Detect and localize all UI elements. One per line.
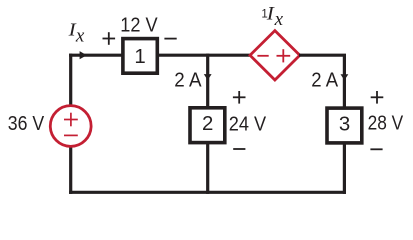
element 3 box bbox=[327, 108, 362, 143]
minus inside source V1 bbox=[64, 134, 78, 136]
label Ix bbox=[68, 20, 85, 47]
svg-text:3: 3 bbox=[339, 113, 350, 135]
label 1Ix (dependent source value) bbox=[261, 3, 283, 30]
element 1 box bbox=[123, 39, 157, 74]
svg-text:28 V: 28 V bbox=[368, 113, 404, 135]
svg-text:12 V: 12 V bbox=[120, 14, 158, 36]
svg-text:1: 1 bbox=[134, 46, 145, 68]
arrowhead: 2 A right branch (down) bbox=[341, 74, 349, 80]
polarity - (24 V) bbox=[233, 148, 245, 150]
svg-text:24 V: 24 V bbox=[229, 114, 267, 136]
wire: top middle (element 1 to dependent source) bbox=[158, 54, 252, 57]
wire: top right (dependent source to right corner) and right rail upper bbox=[299, 55, 344, 108]
plus inside dependent source bbox=[277, 49, 291, 62]
arrowhead: current Ix direction bbox=[80, 51, 87, 59]
voltage source V1 36V circle bbox=[50, 106, 91, 147]
svg-text:2 A: 2 A bbox=[174, 69, 202, 91]
wire: left rail upper bbox=[69, 54, 72, 107]
minus inside dependent source bbox=[257, 55, 268, 57]
wire: top-left horizontal (node a to element 1) bbox=[69, 54, 122, 57]
polarity + (24 V) bbox=[233, 91, 246, 104]
polarity + (element 1 left) bbox=[103, 32, 116, 45]
svg-text:2 A: 2 A bbox=[311, 69, 338, 91]
polarity - (28 V) bbox=[370, 148, 382, 150]
plus inside source V1 bbox=[64, 113, 78, 127]
wire: right rail lower bbox=[343, 142, 346, 194]
wire: bottom rail bbox=[69, 191, 346, 194]
polarity - (element 1 right) bbox=[164, 38, 176, 40]
svg-text:36 V: 36 V bbox=[8, 113, 45, 135]
polarity + (28 V) bbox=[371, 91, 384, 104]
svg-text:x: x bbox=[274, 9, 284, 30]
dependent source U1 diamond bbox=[250, 31, 300, 80]
wire: left rail lower bbox=[69, 146, 72, 194]
svg-text:2: 2 bbox=[202, 113, 213, 135]
svg-text:x: x bbox=[75, 26, 85, 47]
wire: branch 2 upper bbox=[206, 54, 209, 108]
wire: branch 2 lower bbox=[206, 143, 209, 194]
element 2 box bbox=[190, 108, 225, 143]
arrowhead: 2 A left branch (down) bbox=[204, 74, 212, 80]
